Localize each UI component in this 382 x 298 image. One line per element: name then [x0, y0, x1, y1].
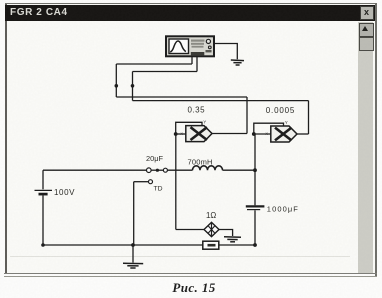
bottom wire right: [219, 244, 255, 246]
wire A down to multiplier output: [246, 97, 248, 134]
wire to sense element: [176, 229, 204, 231]
wire between switch circles: [151, 169, 163, 171]
figure caption: [120, 280, 268, 296]
title text: [10, 7, 210, 20]
switch lower terminal circle: [149, 180, 153, 184]
battery V1 long plate: [35, 189, 53, 191]
resistor R1 box: [203, 241, 219, 249]
wire U1 y wrap: [176, 122, 202, 134]
switch middle dot: [156, 169, 159, 172]
wire vertical A: [115, 64, 117, 97]
battery V1 short plate: [39, 193, 48, 196]
battery rail upper: [42, 170, 44, 189]
wire scope B horizontal: [133, 71, 198, 73]
top wire right segment: [223, 169, 256, 171]
oscilloscope sine trace: [170, 41, 186, 52]
bottom wire left: [43, 244, 203, 246]
wire switch to left: [134, 181, 149, 183]
capacitor C2 bottom plate: [247, 209, 260, 211]
scrollbar thumb: [359, 37, 374, 52]
wire scope A stub: [191, 56, 193, 65]
multiplier U1 X symbol: [191, 127, 208, 140]
wire sense to ground: [219, 230, 233, 237]
multiplier U2 X symbol: [275, 128, 292, 141]
bottom border double line: [4, 273, 377, 274]
top wire left segment: [43, 169, 147, 171]
wire U2 y wrap: [254, 123, 284, 134]
node dot top right: [253, 168, 257, 172]
node dot A: [115, 84, 119, 88]
current sense element (diamond): [204, 222, 219, 236]
wire scope B stub: [196, 56, 198, 72]
switch terminal circle right: [163, 168, 167, 172]
capacitor C2 top plate: [246, 205, 265, 207]
wire A lower horizontal: [116, 96, 247, 98]
ground G3 plates: [123, 263, 143, 268]
oscilloscope XSC1 body: [166, 36, 214, 56]
capacitor rail upper: [254, 135, 256, 206]
scrollbar up button: [359, 23, 374, 37]
sense element cross: [208, 224, 214, 236]
switch terminal circle left: [147, 168, 152, 173]
wire current sense vertical: [175, 134, 177, 230]
multiplier U2 input junction dot: [252, 132, 256, 136]
wire multiplier 1 output: [212, 133, 247, 135]
oscilloscope screen: [169, 39, 189, 54]
multiplier U1 body: [186, 126, 212, 142]
scrollbar track: [358, 22, 373, 273]
oscilloscope knob ring: [206, 39, 210, 43]
close button: [360, 6, 374, 20]
wire B down to multiplier 2 output: [308, 101, 310, 134]
wire scope A horizontal: [116, 63, 192, 65]
faint inner shadow line: [10, 256, 350, 257]
resistor R1 inner mark: [208, 244, 216, 247]
node dot B: [131, 84, 135, 88]
wire U1 x input: [176, 133, 186, 135]
inductor L1 coil 700mH: [193, 166, 223, 170]
node dot bottom left: [41, 243, 45, 247]
node dot bottom right: [253, 243, 257, 247]
ground G1 (scope): [231, 60, 244, 65]
wire switch vertical down: [133, 182, 135, 245]
window outer frame: [5, 3, 7, 274]
wire B lower horizontal: [133, 100, 309, 102]
ground G3 stub: [132, 245, 134, 263]
battery rail lower: [42, 196, 44, 246]
ground G4 (sense): [224, 237, 241, 242]
wire scope right to ground: [215, 44, 238, 60]
wire vertical B: [132, 72, 134, 101]
multiplier U1 input junction dot: [174, 132, 178, 136]
oscilloscope small knob: [208, 46, 211, 49]
wire multiplier 2 output: [297, 133, 309, 135]
top wire middle segment: [168, 169, 193, 171]
multiplier U2 body: [271, 126, 297, 142]
capacitor rail lower: [254, 210, 256, 245]
node dot bottom switch: [131, 243, 135, 247]
oscilloscope right panel detail: [191, 40, 212, 56]
wire U2 x input: [254, 133, 271, 135]
right outer border: [375, 3, 378, 276]
title bar: [5, 5, 375, 21]
